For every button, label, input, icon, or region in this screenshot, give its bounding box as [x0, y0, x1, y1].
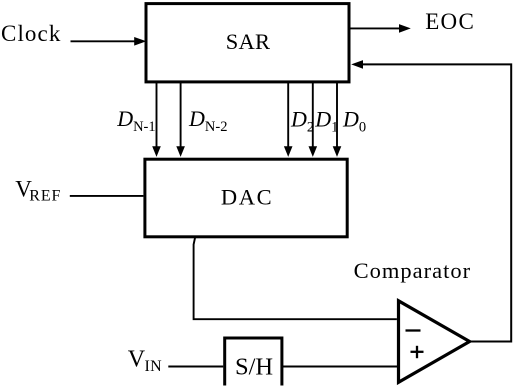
block S/H [225, 338, 282, 386]
svg-text:Clock: Clock [1, 21, 61, 46]
wire DAC output to comparator inverting input [194, 237, 397, 320]
wire bit D2 from SAR to DAC with arrowhead [284, 83, 293, 157]
wire EOC output from SAR with arrowhead [350, 24, 411, 33]
wire S/H output to comparator non-inverting input [283, 366, 397, 368]
svg-text:Comparator: Comparator [354, 258, 471, 283]
inverting input minus sign [406, 329, 421, 331]
wire bit D N-2 from SAR to DAC with arrowhead [176, 83, 185, 157]
wire VREF input to DAC [70, 195, 144, 197]
svg-text:DAC: DAC [221, 185, 273, 210]
wire bit D1 from SAR to DAC with arrowhead [309, 83, 318, 157]
svg-text:SAR: SAR [226, 29, 270, 54]
svg-text:REF: REF [29, 188, 61, 205]
non-inverting input plus sign [411, 346, 424, 358]
wire bit D0 from SAR to DAC with arrowhead [333, 83, 342, 157]
block SAR [146, 4, 349, 82]
comparator U1 triangle [399, 301, 470, 383]
wire VIN to S/H [168, 366, 223, 368]
svg-text:V: V [128, 346, 146, 372]
wire comparator output feedback to SAR with arrowhead [351, 60, 511, 341]
block DAC [145, 159, 347, 237]
wire bit D N-1 from SAR to DAC with arrowhead [152, 83, 161, 157]
svg-text:EOC: EOC [425, 9, 475, 34]
wire clock input to SAR with arrowhead [71, 37, 147, 46]
svg-text:S/H: S/H [235, 353, 273, 380]
svg-text:IN: IN [145, 358, 163, 375]
